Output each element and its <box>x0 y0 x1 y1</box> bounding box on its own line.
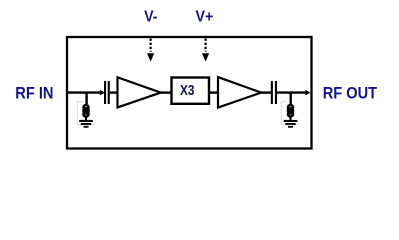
svg-text:RF IN: RF IN <box>15 84 53 102</box>
V+ supply dashed arrow <box>202 39 209 62</box>
artifact frame around L1 ground (light gray) <box>77 102 94 125</box>
ground (output side) <box>284 117 298 128</box>
op-amp U2 (output amplifier triangle) <box>218 77 261 108</box>
V- supply dashed arrow <box>147 39 154 62</box>
inductor L1 (input RF choke) <box>84 105 89 117</box>
wire: input rail from box edge with arrowhead into C1 <box>67 90 105 96</box>
svg-text:RF OUT: RF OUT <box>323 84 377 102</box>
outer box (tripler module outline) <box>67 37 312 149</box>
multiplier X3 block <box>172 78 210 104</box>
wire: X3 block to U2 <box>209 91 218 93</box>
artifact frame around L2 ground (light gray) <box>281 102 298 125</box>
wire: U1 output to X3 block <box>161 91 172 93</box>
inductor L2 (output RF choke) <box>288 105 293 117</box>
svg-text:V-: V- <box>144 9 157 26</box>
wire: output rail with arrowhead to box edge <box>277 90 311 96</box>
ground (input side) <box>79 117 93 128</box>
svg-text:V+: V+ <box>196 9 214 26</box>
svg-text:X3: X3 <box>180 83 194 99</box>
wire: U2 output to C2 <box>261 91 271 93</box>
op-amp U1 (input amplifier triangle) <box>118 77 161 107</box>
capacitor C2 (output DC block) <box>271 81 277 104</box>
node: output junction branch wire <box>290 93 292 106</box>
node: input junction branch wire <box>85 93 87 106</box>
capacitor C1 (input DC block) <box>104 81 118 104</box>
